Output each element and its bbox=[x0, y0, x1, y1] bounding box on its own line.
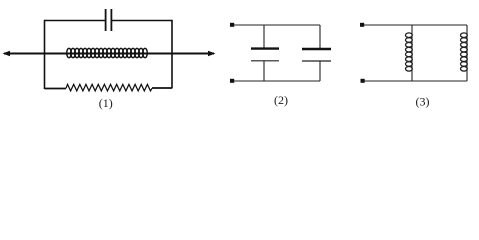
capacitor C3 bbox=[319, 25, 321, 48]
wire middle line with arrows bbox=[4, 53, 214, 55]
svg-text:(2): (2) bbox=[274, 93, 288, 107]
arrowhead left bbox=[3, 51, 11, 56]
circuit 1 bbox=[3, 9, 216, 91]
svg-text:(3): (3) bbox=[416, 95, 430, 109]
capacitor C1 plates bbox=[105, 9, 107, 31]
wire top side left bbox=[45, 20, 106, 22]
wire top rail bbox=[364, 24, 467, 26]
wire top side right bbox=[112, 20, 172, 22]
wire left side bbox=[44, 20, 46, 89]
terminal square top bbox=[230, 23, 234, 27]
wire right side bbox=[171, 20, 173, 89]
wire bottom rail bbox=[234, 80, 320, 82]
terminal square top bbox=[360, 23, 364, 27]
wire top rail bbox=[234, 24, 320, 26]
wire bottom side left bbox=[45, 88, 67, 90]
circuit 3 bbox=[360, 23, 467, 83]
inductor L3 bbox=[461, 25, 468, 81]
resistor R1 zigzag bbox=[66, 84, 152, 91]
wire bottom rail bbox=[364, 80, 467, 82]
svg-text:(1): (1) bbox=[99, 96, 113, 110]
arrowhead right bbox=[208, 51, 216, 56]
inductor L1 coil bbox=[67, 48, 148, 57]
capacitor C2 bbox=[263, 25, 265, 48]
inductor L2 bbox=[406, 25, 413, 81]
circuit 2 bbox=[230, 23, 331, 83]
terminal square bottom bbox=[361, 79, 365, 83]
wire bottom side right bbox=[152, 87, 172, 89]
terminal square bottom bbox=[230, 79, 234, 83]
